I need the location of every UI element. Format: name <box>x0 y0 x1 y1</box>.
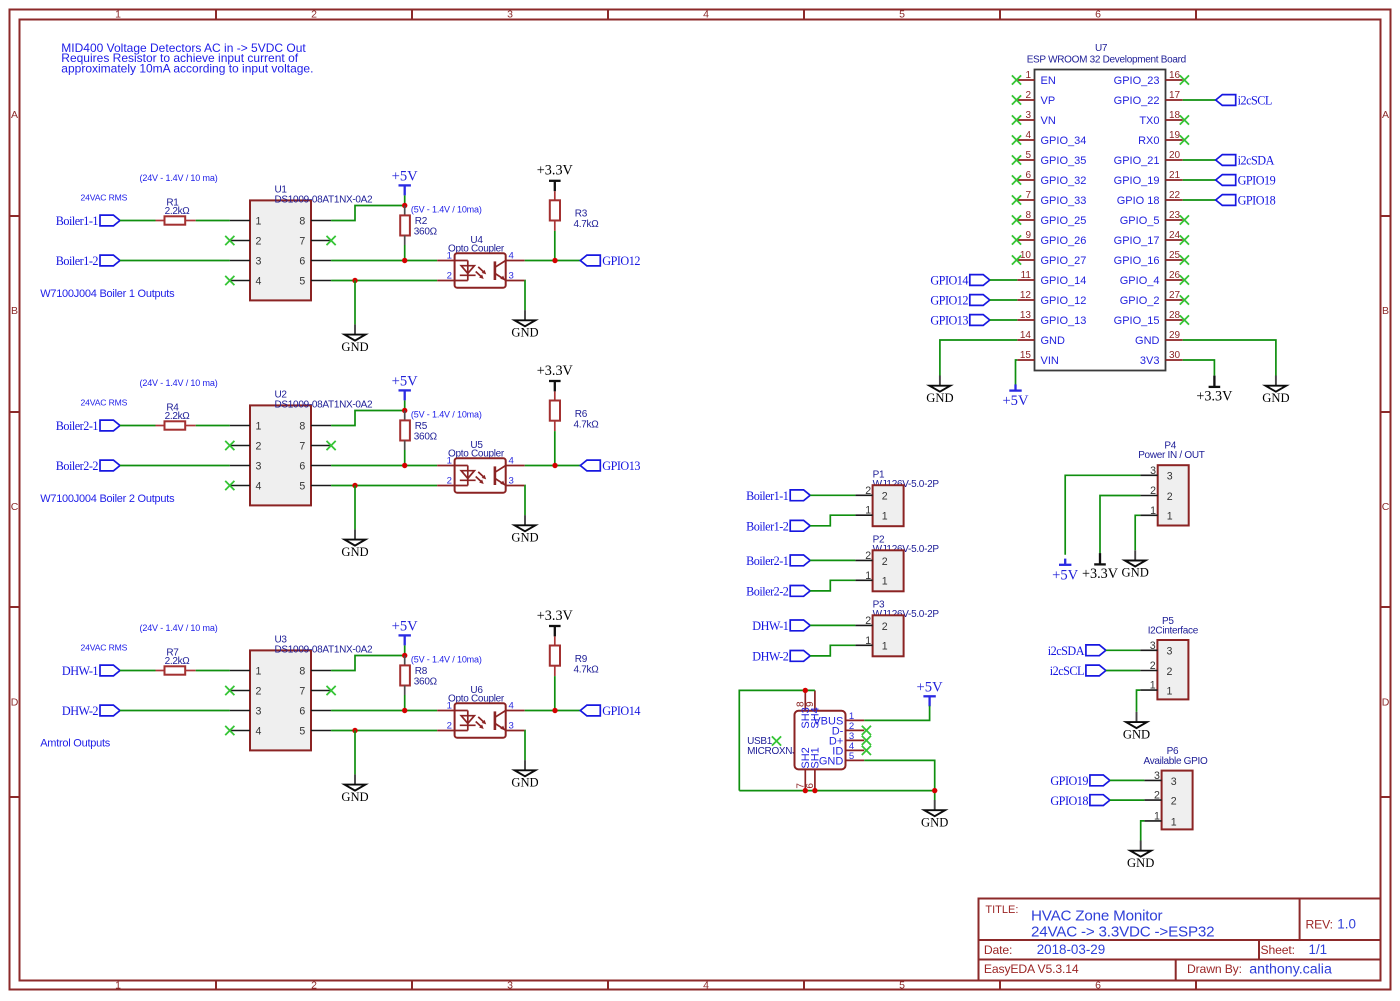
svg-text:4: 4 <box>703 9 709 21</box>
svg-text:2: 2 <box>882 556 888 568</box>
svg-text:Boiler1-1: Boiler1-1 <box>56 214 99 228</box>
svg-text:GPIO_23: GPIO_23 <box>1114 75 1160 87</box>
svg-text:DHW-2: DHW-2 <box>752 650 788 664</box>
no-connect X U2 pin2 <box>225 441 234 450</box>
resistor R8 360 <box>400 656 437 696</box>
wire U7 pin14 to ground <box>940 340 1017 376</box>
wire R6 to GPIO13 node <box>554 431 556 465</box>
wire U7 to i2cSCL <box>1183 99 1216 101</box>
svg-text:GPIO13: GPIO13 <box>930 314 968 328</box>
no-connect X USB1 D+ <box>862 736 871 745</box>
svg-text:2: 2 <box>1150 660 1156 672</box>
wire U3 pin5 to opto pin2 <box>331 730 437 732</box>
wire USB1 shield top loop <box>739 690 815 790</box>
net port Boiler1-2 (P1) <box>746 520 810 534</box>
svg-text:DHW-2: DHW-2 <box>62 704 98 718</box>
junction node +5V/R8 <box>402 653 407 658</box>
ground <box>511 310 538 339</box>
svg-text:+3.3V: +3.3V <box>537 608 574 624</box>
svg-text:1: 1 <box>1167 511 1173 523</box>
wire U7 pin30 to +3.3V <box>1183 360 1215 376</box>
wire U7 to GPIO18 <box>1183 199 1216 201</box>
svg-text:1: 1 <box>1154 810 1160 822</box>
wire U7 to i2cSDA <box>1183 159 1216 161</box>
wire U7 to GPIO19 <box>1183 179 1216 181</box>
svg-text:2: 2 <box>865 550 871 562</box>
svg-text:5: 5 <box>899 9 905 21</box>
svg-text:GND: GND <box>1262 391 1289 405</box>
wire P4 pin1 to ground <box>1135 515 1140 550</box>
svg-text:27: 27 <box>1169 290 1181 301</box>
resistor R6 4.7k <box>550 391 599 431</box>
svg-text:28: 28 <box>1169 310 1181 321</box>
net port Boiler2-1 <box>56 419 120 433</box>
svg-text:B: B <box>1382 305 1389 317</box>
U7 pin 15 VIN <box>1017 350 1059 367</box>
resistor R5 360 <box>400 411 437 451</box>
wire U7 pin29 to ground <box>1183 340 1276 376</box>
connector P6 Available GPIO <box>1144 746 1209 829</box>
svg-text:19: 19 <box>1169 130 1181 141</box>
wire U7 pin15 to +5V <box>1016 360 1018 385</box>
svg-text:3: 3 <box>507 979 513 991</box>
svg-text:4: 4 <box>256 725 262 737</box>
title text <box>984 904 1356 978</box>
ground <box>926 376 953 405</box>
wire P6 pin1 to ground <box>1141 821 1145 841</box>
wire U3 pin6 to opto pin1 <box>331 710 437 712</box>
svg-text:Boiler1-2: Boiler1-2 <box>56 254 99 268</box>
svg-text:1: 1 <box>882 511 888 523</box>
wire Boiler2-2 to P2 pin1 <box>810 580 855 591</box>
resistor R1 2.2k <box>156 198 196 225</box>
svg-text:GND: GND <box>341 340 368 354</box>
net port GPIO18 (P6) <box>1050 794 1110 808</box>
svg-text:Boiler1-2: Boiler1-2 <box>746 520 789 534</box>
U7 pin 17 GPIO_22 <box>1114 90 1183 107</box>
connector P1 WJ126V-5.0-2P <box>855 470 939 527</box>
svg-text:16: 16 <box>1169 70 1181 81</box>
svg-text:(24V - 1.4V / 10 ma): (24V - 1.4V / 10 ma) <box>140 378 218 388</box>
svg-text:1: 1 <box>865 570 871 582</box>
svg-text:3: 3 <box>256 255 262 267</box>
svg-text:2: 2 <box>256 235 262 247</box>
wire R2 to pin6 node <box>404 245 406 261</box>
svg-text:VP: VP <box>1041 95 1056 107</box>
svg-text:GPIO13: GPIO13 <box>602 459 640 473</box>
svg-text:GND: GND <box>1123 727 1150 741</box>
svg-text:360Ω: 360Ω <box>414 431 438 442</box>
svg-text:RX0: RX0 <box>1138 135 1159 147</box>
svg-text:2: 2 <box>882 491 888 503</box>
U7 pin 9 GPIO_26 <box>1012 230 1086 247</box>
svg-text:3V3: 3V3 <box>1140 355 1160 367</box>
svg-text:Date:: Date: <box>984 943 1012 957</box>
svg-text:GPIO_17: GPIO_17 <box>1114 235 1160 247</box>
svg-text:5: 5 <box>849 751 854 762</box>
U7 pin 7 GPIO_33 <box>1012 190 1086 207</box>
U7 pin 24 GPIO_17 <box>1114 230 1189 247</box>
svg-text:GND: GND <box>511 326 538 340</box>
+3.3V power flag (P4) <box>1082 553 1119 582</box>
svg-text:(5V - 1.4V / 10ma): (5V - 1.4V / 10ma) <box>411 204 482 214</box>
resistor R7 2.2k <box>156 648 196 675</box>
U7 pin 1 EN <box>1012 70 1056 87</box>
svg-text:7: 7 <box>299 235 305 247</box>
svg-text:C: C <box>11 501 19 513</box>
svg-text:3: 3 <box>256 460 262 472</box>
svg-text:GND: GND <box>511 531 538 545</box>
svg-text:29: 29 <box>1169 330 1181 341</box>
svg-text:+5V: +5V <box>392 373 419 389</box>
wire Boiler1-1 to P1 pin2 <box>810 494 855 496</box>
svg-text:6: 6 <box>299 255 305 267</box>
wire DHW-1 to P3 pin2 <box>810 624 855 626</box>
svg-text:GPIO18: GPIO18 <box>1238 194 1276 208</box>
svg-text:DS1009-08AT1NX-0A2: DS1009-08AT1NX-0A2 <box>275 399 374 410</box>
wire Boiler1-1 to R1 <box>120 220 156 222</box>
svg-text:22: 22 <box>1169 190 1181 201</box>
svg-text:(5V - 1.4V / 10ma): (5V - 1.4V / 10ma) <box>411 409 482 419</box>
+5V power flag <box>392 373 419 400</box>
ground <box>1262 376 1289 405</box>
U7 pin 25 GPIO_16 <box>1114 250 1189 267</box>
resistor R3 4.7k <box>550 191 599 231</box>
svg-text:7: 7 <box>299 685 305 697</box>
svg-text:2: 2 <box>256 685 262 697</box>
wire opto pin3 to ground <box>524 731 526 761</box>
+3.3V power flag <box>1196 376 1233 405</box>
ground (USB1) <box>921 800 948 829</box>
junction node USB ground <box>932 788 937 793</box>
svg-text:8: 8 <box>299 215 305 227</box>
net port Boiler2-1 (P2) <box>746 554 810 568</box>
svg-text:21: 21 <box>1169 170 1181 181</box>
svg-text:3: 3 <box>1150 640 1156 652</box>
svg-text:+5V: +5V <box>1052 567 1079 583</box>
svg-text:GND: GND <box>926 391 953 405</box>
svg-text:GPIO12: GPIO12 <box>602 254 640 268</box>
wire Boiler1-2 to U1 pin3 <box>120 260 230 262</box>
svg-text:+3.3V: +3.3V <box>1196 388 1233 404</box>
svg-text:2: 2 <box>865 485 871 497</box>
svg-text:MICROXNJ: MICROXNJ <box>747 746 797 757</box>
svg-text:8: 8 <box>299 420 305 432</box>
svg-text:1: 1 <box>1167 686 1173 698</box>
svg-text:1: 1 <box>447 701 452 712</box>
wire pin5 node down to ground <box>354 486 356 530</box>
svg-text:6: 6 <box>1095 9 1101 21</box>
wire opto pin4 to GPIO14 <box>525 710 581 712</box>
svg-text:3: 3 <box>509 271 514 282</box>
svg-text:DS1009-08AT1NX-0A2: DS1009-08AT1NX-0A2 <box>275 644 374 655</box>
junction node shield pin6 <box>812 788 817 793</box>
svg-text:2: 2 <box>865 615 871 627</box>
svg-text:360Ω: 360Ω <box>414 676 438 687</box>
svg-text:GPIO_4: GPIO_4 <box>1120 275 1160 287</box>
svg-text:i2cSCL: i2cSCL <box>1050 664 1084 678</box>
svg-text:3: 3 <box>1150 465 1156 477</box>
net port GPIO18 (U7) <box>1216 194 1276 208</box>
svg-text:GND: GND <box>1122 566 1149 580</box>
U7 pin 21 GPIO_19 <box>1114 170 1183 187</box>
svg-text:GND: GND <box>921 815 948 829</box>
wire +5V stem <box>404 195 406 205</box>
svg-text:15: 15 <box>1020 350 1032 361</box>
wire P5 pin1 to ground <box>1137 690 1141 712</box>
svg-text:Boiler2-1: Boiler2-1 <box>746 554 789 568</box>
wire Boiler2-2 to U2 pin3 <box>120 465 230 467</box>
U7 pin 29 GND <box>1135 330 1183 347</box>
svg-text:R9: R9 <box>575 654 588 665</box>
svg-text:GPIO_5: GPIO_5 <box>1120 215 1160 227</box>
+3.3V power flag <box>537 608 574 637</box>
junction node R3/GPIO12 <box>552 258 557 263</box>
U7 pin 13 GPIO_13 <box>1017 310 1086 327</box>
wire GPIO19 to P6 <box>1110 779 1145 781</box>
wire pin5 node down to ground <box>354 731 356 775</box>
svg-text:GPIO_26: GPIO_26 <box>1041 235 1087 247</box>
svg-text:I2Cinterface: I2Cinterface <box>1148 625 1199 636</box>
wire U2 pin8 to +5V node <box>331 411 405 426</box>
svg-text:4.7kΩ: 4.7kΩ <box>574 219 600 230</box>
svg-text:3: 3 <box>509 721 514 732</box>
wire i2cSDA to P5 <box>1106 649 1140 651</box>
svg-text:EasyEDA V5.3.14: EasyEDA V5.3.14 <box>984 962 1079 976</box>
svg-text:Power IN / OUT: Power IN / OUT <box>1138 450 1205 461</box>
svg-text:GND: GND <box>819 756 844 768</box>
svg-text:GPIO_19: GPIO_19 <box>1114 175 1160 187</box>
U7 pin 19 RX0 <box>1138 130 1189 147</box>
U7 pin 28 GPIO_15 <box>1114 310 1189 327</box>
svg-text:4: 4 <box>509 701 515 712</box>
wire P4 pin3 to +5V <box>1065 475 1140 555</box>
svg-text:1: 1 <box>1150 680 1156 692</box>
svg-text:4.7kΩ: 4.7kΩ <box>574 664 600 675</box>
wire R7 to U3 pin1 <box>196 670 230 672</box>
svg-text:VN: VN <box>1041 115 1056 127</box>
wire P4 pin2 to +3.3V <box>1100 496 1140 554</box>
svg-text:1: 1 <box>256 420 262 432</box>
svg-text:1: 1 <box>882 576 888 588</box>
net port GPIO13 (U7) <box>930 314 989 328</box>
+5V power flag <box>392 618 419 645</box>
ground (P5) <box>1123 712 1150 741</box>
+5V power flag (USB1) <box>917 679 944 706</box>
U7 pin 27 GPIO_2 <box>1120 290 1189 307</box>
svg-text:REV:: REV: <box>1306 917 1333 931</box>
svg-text:+5V: +5V <box>917 679 944 695</box>
svg-text:GPIO14: GPIO14 <box>930 274 968 288</box>
svg-text:4: 4 <box>1025 130 1031 141</box>
svg-text:2: 2 <box>447 476 452 487</box>
svg-text:C: C <box>1382 501 1390 513</box>
svg-text:GPIO19: GPIO19 <box>1238 174 1276 188</box>
svg-text:1.0: 1.0 <box>1337 916 1356 931</box>
svg-text:(24V - 1.4V / 10 ma): (24V - 1.4V / 10 ma) <box>140 173 218 183</box>
svg-text:5: 5 <box>299 725 305 737</box>
no-connect X U1 pin2 <box>225 236 234 245</box>
svg-text:2.2kΩ: 2.2kΩ <box>165 656 191 667</box>
U7 pin 18 TX0 <box>1139 110 1189 127</box>
svg-text:2: 2 <box>882 621 888 633</box>
net port Boiler1-2 <box>56 254 120 268</box>
svg-text:10: 10 <box>1020 250 1032 261</box>
svg-text:2: 2 <box>1171 796 1177 808</box>
svg-text:2: 2 <box>447 271 452 282</box>
svg-text:4.7kΩ: 4.7kΩ <box>574 419 600 430</box>
wire +5V stem <box>404 645 406 655</box>
svg-text:DS1009-08AT1NX-0A2: DS1009-08AT1NX-0A2 <box>275 194 374 205</box>
opto-coupler U5 <box>437 440 525 493</box>
U7 pin 14 GND <box>1017 330 1065 347</box>
svg-text:2018-03-29: 2018-03-29 <box>1037 942 1106 957</box>
junction node pin6/R8 <box>402 708 407 713</box>
wire R5 to pin6 node <box>404 450 406 466</box>
opto-coupler U6 <box>437 685 525 738</box>
resistor R9 4.7k <box>550 636 599 676</box>
svg-text:GPIO_13: GPIO_13 <box>1041 315 1087 327</box>
wire opto pin3 to ground <box>524 486 526 516</box>
svg-text:EN: EN <box>1041 75 1056 87</box>
wire DHW-2 to U3 pin3 <box>120 710 230 712</box>
svg-text:GPIO_22: GPIO_22 <box>1114 95 1160 107</box>
net port DHW-1 (P3) <box>752 619 810 633</box>
svg-text:1: 1 <box>882 641 888 653</box>
svg-text:2: 2 <box>1025 90 1031 101</box>
wire USB1 VBUS to +5V <box>864 706 929 721</box>
svg-text:Boiler2-2: Boiler2-2 <box>56 459 99 473</box>
wire Boiler1-2 to P1 pin1 <box>810 515 855 526</box>
svg-text:TX0: TX0 <box>1139 115 1159 127</box>
wire GPIO18 to P6 <box>1110 799 1145 801</box>
U7 pin 3 VN <box>1012 110 1056 127</box>
no-connect X U1 pin7 <box>327 236 336 245</box>
+3.3V power flag <box>537 163 574 192</box>
wire GPIO12 to U7 <box>990 299 1018 301</box>
net port Boiler1-1 <box>56 214 120 228</box>
svg-text:2: 2 <box>1167 666 1173 678</box>
svg-text:i2cSDA: i2cSDA <box>1048 644 1085 658</box>
svg-text:1: 1 <box>1025 70 1031 81</box>
svg-text:GPIO_15: GPIO_15 <box>1114 315 1160 327</box>
svg-text:24VAC RMS: 24VAC RMS <box>81 642 128 652</box>
+5V power flag <box>392 168 419 195</box>
net port GPIO12 <box>580 254 640 268</box>
svg-text:3: 3 <box>507 9 513 21</box>
IC U7 ESP WROOM 32 Development Board <box>1027 43 1186 371</box>
svg-text:6: 6 <box>805 783 816 789</box>
svg-text:360Ω: 360Ω <box>414 226 438 237</box>
ground <box>341 529 368 558</box>
svg-text:Boiler2-1: Boiler2-1 <box>56 419 99 433</box>
U7 pin 12 GPIO_12 <box>1017 290 1086 307</box>
svg-text:14: 14 <box>1020 330 1032 341</box>
resistor R2 360 <box>400 206 437 246</box>
svg-text:2: 2 <box>311 9 317 21</box>
junction node shield pin7 <box>803 788 808 793</box>
wire Boiler2-1 to P2 pin2 <box>810 559 855 561</box>
svg-text:1: 1 <box>1150 505 1156 517</box>
svg-text:2: 2 <box>256 440 262 452</box>
svg-text:9: 9 <box>1025 230 1031 241</box>
svg-text:17: 17 <box>1169 90 1181 101</box>
net port GPIO19 (U7) <box>1216 174 1276 188</box>
IC U3 DS1009-08AT1NX-0A2 <box>230 635 373 751</box>
svg-text:+5V: +5V <box>392 618 419 634</box>
svg-text:5: 5 <box>299 480 305 492</box>
svg-text:Drawn By:: Drawn By: <box>1187 962 1242 976</box>
wire U1 pin5 to opto pin2 <box>331 280 437 282</box>
wire R9 to GPIO14 node <box>554 676 556 710</box>
svg-text:12: 12 <box>1020 290 1032 301</box>
svg-text:1: 1 <box>256 215 262 227</box>
svg-text:GPIO_2: GPIO_2 <box>1120 295 1160 307</box>
svg-text:R3: R3 <box>575 209 588 220</box>
svg-text:4: 4 <box>256 275 262 287</box>
U7 pin 6 GPIO_32 <box>1012 170 1086 187</box>
+5V power flag (P4) <box>1052 559 1079 584</box>
wire GPIO14 to U7 <box>990 279 1018 281</box>
no-connect X U3 pin2 <box>225 686 234 695</box>
wire USB1 GND pin5 <box>864 760 935 800</box>
U7 pin 11 GPIO_14 <box>1017 270 1086 287</box>
annotation note <box>61 41 313 76</box>
svg-text:+3.3V: +3.3V <box>537 163 574 179</box>
+5V power flag <box>1002 384 1029 409</box>
svg-text:HVAC Zone Monitor: HVAC Zone Monitor <box>1031 907 1163 924</box>
svg-text:4: 4 <box>509 456 515 467</box>
svg-text:GPIO_14: GPIO_14 <box>1041 275 1087 287</box>
connector P2 WJ126V-5.0-2P <box>855 535 939 592</box>
svg-text:5: 5 <box>1025 150 1031 161</box>
svg-text:GPIO_33: GPIO_33 <box>1041 195 1087 207</box>
wire R3 to GPIO12 node <box>554 231 556 261</box>
no-connect X U3 pin7 <box>327 686 336 695</box>
junction node pin6/R5 <box>402 463 407 468</box>
wire opto pin4 to GPIO12 <box>525 260 581 262</box>
svg-text:GND: GND <box>341 545 368 559</box>
net port DHW-1 <box>62 664 120 678</box>
svg-text:GPIO_32: GPIO_32 <box>1041 175 1087 187</box>
svg-text:GND: GND <box>341 790 368 804</box>
svg-text:GPIO14: GPIO14 <box>602 704 640 718</box>
svg-text:7: 7 <box>1025 190 1031 201</box>
+3.3V power flag <box>537 363 574 392</box>
U7 pin 4 GPIO_34 <box>1012 130 1086 147</box>
svg-text:GND: GND <box>1135 335 1160 347</box>
svg-text:GPIO_35: GPIO_35 <box>1041 155 1087 167</box>
svg-text:Boiler2-2: Boiler2-2 <box>746 585 789 599</box>
svg-text:GPIO19: GPIO19 <box>1050 774 1088 788</box>
ground <box>341 324 368 353</box>
svg-text:2: 2 <box>447 721 452 732</box>
svg-text:11: 11 <box>1021 270 1032 281</box>
opto-coupler U4 <box>437 235 525 288</box>
wire DHW-2 to P3 pin1 <box>810 645 855 656</box>
wire USB1 shield bottom <box>739 790 934 792</box>
wire R4 to U2 pin1 <box>196 425 230 427</box>
svg-text:Sheet:: Sheet: <box>1261 943 1295 957</box>
svg-text:GPIO_12: GPIO_12 <box>1041 295 1087 307</box>
no-connect X U3 pin4 <box>225 726 234 735</box>
wire U2 pin6 to opto pin1 <box>331 465 437 467</box>
svg-text:5: 5 <box>899 979 905 991</box>
svg-text:1/1: 1/1 <box>1309 942 1328 957</box>
svg-text:6: 6 <box>299 705 305 717</box>
svg-text:13: 13 <box>1020 310 1032 321</box>
U7 pin 2 VP <box>1012 90 1055 107</box>
